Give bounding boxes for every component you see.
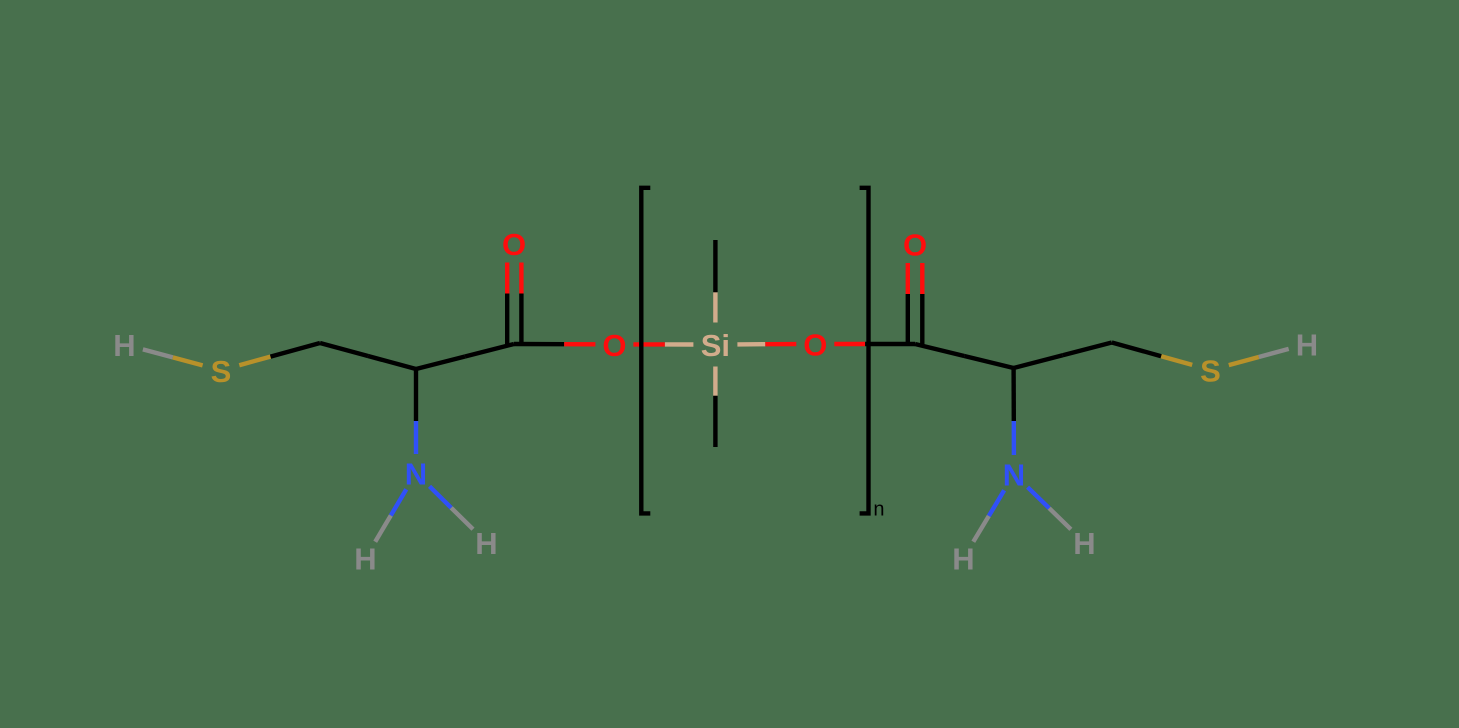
svg-text:S: S xyxy=(1200,354,1221,389)
svg-text:H: H xyxy=(354,542,376,577)
svg-text:O: O xyxy=(602,328,626,363)
svg-text:S: S xyxy=(211,354,232,389)
svg-text:N: N xyxy=(1003,458,1025,493)
svg-text:H: H xyxy=(475,526,497,561)
svg-text:O: O xyxy=(903,228,927,263)
svg-text:O: O xyxy=(803,328,827,363)
svg-text:H: H xyxy=(952,542,974,577)
svg-text:Si: Si xyxy=(701,328,730,363)
svg-text:N: N xyxy=(405,457,427,492)
svg-text:H: H xyxy=(1073,526,1095,561)
svg-text:n: n xyxy=(873,498,884,520)
svg-text:H: H xyxy=(113,328,135,363)
svg-text:H: H xyxy=(1296,328,1318,363)
svg-text:O: O xyxy=(502,227,526,262)
